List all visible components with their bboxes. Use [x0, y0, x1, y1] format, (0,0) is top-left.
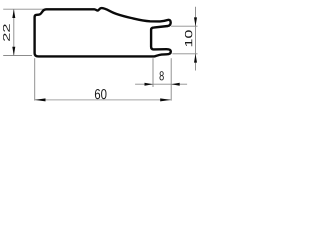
- dimension line 8: [135, 83, 187, 85]
- arrow 10 top (down, outside): [194, 17, 197, 26]
- dimension text 10: [185, 30, 192, 46]
- arrowheads (black): [12, 9, 197, 101]
- dimension line 60: [35, 99, 171, 101]
- dimension and extension lines: [3, 7, 197, 101]
- extension line left of 60: [34, 58, 36, 100]
- arrow 60 left (left, inside): [35, 98, 46, 101]
- arrow 10 bottom (up, outside): [194, 54, 197, 63]
- extension line right of 8 and 60: [170, 58, 172, 100]
- extension line bottom of 22: [3, 55, 32, 57]
- arrow 22 top (up): [12, 9, 15, 18]
- dimension line 10: [195, 7, 197, 71]
- dimension text 22: [3, 24, 10, 41]
- arrow 60 right (right, inside): [160, 98, 171, 101]
- arrow 8 left (right, outside): [145, 83, 154, 86]
- dimension text 60: [95, 89, 107, 99]
- extension line top of 22: [3, 8, 44, 10]
- extension line top of 10: [171, 25, 197, 27]
- extension line bottom of 10: [172, 53, 197, 55]
- extension line left of 8: [152, 58, 154, 87]
- arrow 22 bottom (down): [12, 47, 15, 56]
- arrow 8 right (left, outside): [171, 83, 180, 86]
- profile outline of moulding cross-section: [35, 8, 171, 56]
- dimension line 22: [13, 9, 15, 55]
- dimension text 8: [160, 71, 164, 80]
